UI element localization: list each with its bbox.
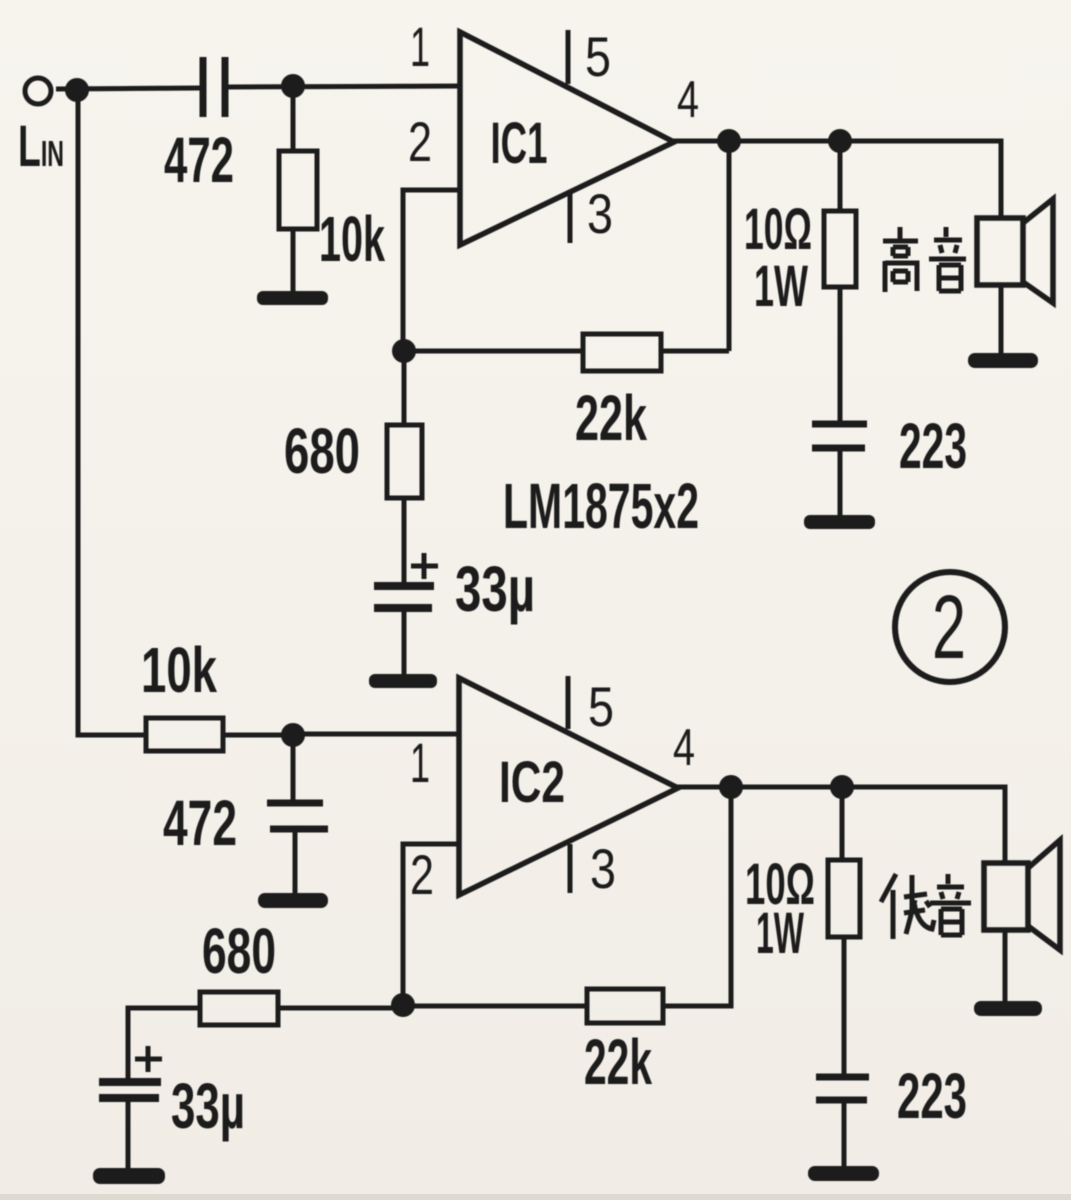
wire cap to IC1 pin 1 — [228, 86, 461, 87]
wire tweeter to ground — [999, 285, 1004, 356]
wire node G down to feedback — [663, 787, 731, 1006]
label 33u lower — [171, 1070, 245, 1142]
wire R680 to C33u — [402, 498, 407, 583]
capacitor C 472 lower — [267, 803, 328, 829]
pin 4 label IC2 — [673, 719, 695, 777]
wire R10ohm to C223 lower — [842, 937, 847, 1077]
svg-text:22k: 22k — [584, 1026, 652, 1098]
node C: output node — [717, 129, 741, 153]
node A: input junction — [65, 78, 89, 102]
resistor R 22k top feedback — [583, 334, 661, 371]
capacitor C 223 lower zobel — [816, 1077, 869, 1100]
svg-text:680: 680 — [202, 915, 276, 987]
label 223 lower — [897, 1060, 967, 1132]
wire IC2 output to woofer — [676, 787, 1005, 864]
pin 5 stub — [566, 30, 571, 84]
svg-text:IC1: IC1 — [491, 111, 548, 176]
pin 3 label IC2 — [590, 837, 616, 900]
wire node H to R10ohm lower — [840, 787, 845, 860]
resistor R 22k lower feedback — [587, 989, 663, 1023]
wire node F down to C472 — [291, 735, 296, 802]
label 223 — [899, 410, 967, 482]
svg-text:10Ω: 10Ω — [744, 197, 812, 262]
svg-text:IC2: IC2 — [499, 750, 565, 815]
pin 5 label — [585, 25, 611, 88]
node B: top input node — [281, 74, 305, 98]
label 10k lower — [141, 634, 217, 706]
wire Lin down to lower channel — [78, 98, 146, 735]
wire R680 to C33u lower — [128, 1008, 200, 1082]
pin 2 label IC2 — [410, 843, 434, 906]
wire IC1 pin 2 — [403, 190, 460, 351]
wire R10ohm to C223 — [838, 287, 843, 424]
capacitor C 472 top coupling — [203, 57, 225, 117]
svg-text:472: 472 — [164, 124, 234, 196]
svg-text:1W: 1W — [756, 901, 804, 966]
label gaoyin tweeter — [883, 227, 966, 292]
ground top input — [257, 291, 328, 305]
speaker woofer — [984, 840, 1060, 950]
pin 3 label — [587, 182, 613, 245]
wire input to coupling cap — [56, 88, 200, 89]
svg-text:3: 3 — [587, 182, 613, 245]
label 10ohm — [744, 197, 812, 262]
svg-text:3: 3 — [590, 837, 616, 900]
svg-text:223: 223 — [897, 1060, 967, 1132]
label 472 — [164, 124, 234, 196]
wire feedback right segment — [661, 349, 729, 354]
label 10k — [319, 203, 385, 275]
resistor R 680 lower — [200, 992, 278, 1025]
node I: lower feedback node — [391, 993, 415, 1017]
pin 3 stub IC2 — [568, 844, 573, 893]
wire C223 to ground lower — [842, 1100, 847, 1168]
svg-text:680: 680 — [284, 415, 360, 487]
label 22k — [575, 382, 647, 454]
label LM1875x2 — [503, 470, 699, 542]
label 472 lower — [163, 787, 237, 859]
wire IC1 output to tweeter — [672, 141, 1001, 219]
ground lower 33u — [93, 1168, 165, 1184]
svg-text:223: 223 — [899, 410, 967, 482]
svg-text:22k: 22k — [575, 382, 647, 454]
wire C33u to ground lower — [126, 1098, 131, 1172]
wire woofer to ground — [1003, 930, 1008, 1003]
ground top 33u — [369, 674, 437, 688]
resistor R 10k top bias — [279, 151, 317, 229]
ground top zobel — [804, 515, 875, 529]
wire C33u to ground — [402, 608, 407, 678]
svg-text:472: 472 — [163, 787, 237, 859]
pin 1 label IC2 — [410, 731, 430, 794]
pin 5 label IC2 — [588, 675, 614, 738]
figure number 2 circled — [895, 572, 1005, 682]
pin 1 label — [410, 15, 430, 78]
wire 22k to node E — [404, 349, 583, 354]
wire node C down to feedback — [727, 141, 732, 351]
ground woofer — [974, 1001, 1042, 1016]
wire node E down to R680 — [402, 351, 407, 425]
node E: feedback node — [392, 339, 416, 363]
svg-text:33µ: 33µ — [455, 553, 535, 625]
resistor R 10ohm 1W top zobel — [824, 211, 856, 287]
label Lin — [18, 114, 64, 179]
op-amp IC2 — [459, 678, 678, 895]
label 22k lower — [584, 1026, 652, 1098]
speaker tweeter — [977, 199, 1053, 303]
svg-text:10k: 10k — [141, 634, 217, 706]
capacitor C 33u lower electrolytic — [99, 1046, 162, 1098]
resistor R 680 top — [387, 425, 422, 498]
capacitor C 223 top zobel — [812, 424, 867, 448]
ground lower zobel — [808, 1166, 879, 1181]
input terminal Lin — [25, 78, 51, 104]
svg-text:4: 4 — [673, 719, 695, 777]
node F: lower input node — [281, 723, 305, 747]
label 1W lower — [756, 901, 804, 966]
resistor R 10ohm 1W lower zobel — [828, 860, 860, 937]
svg-text:5: 5 — [588, 675, 614, 738]
wire IC2 pin 2 — [403, 844, 459, 1004]
svg-text:2: 2 — [408, 110, 432, 173]
op-amp IC1 — [460, 32, 674, 245]
wire R10k to node F — [223, 733, 293, 738]
svg-text:10k: 10k — [319, 203, 385, 275]
label 33u — [455, 553, 535, 625]
svg-text:2: 2 — [410, 843, 434, 906]
svg-text:LM1875x2: LM1875x2 — [503, 470, 699, 542]
wire C472 to ground — [293, 829, 298, 897]
pin 5 stub IC2 — [566, 676, 571, 729]
svg-text:5: 5 — [585, 25, 611, 88]
pin 2 label — [408, 110, 432, 173]
wire node D to R10ohm — [838, 141, 843, 211]
wire 22k to node I — [403, 1004, 587, 1009]
svg-text:4: 4 — [677, 71, 699, 129]
svg-text:1: 1 — [410, 731, 430, 794]
svg-text:1W: 1W — [754, 254, 808, 319]
label IC2 — [499, 750, 565, 815]
node D: zobel node — [828, 129, 852, 153]
resistor R 10k lower series — [146, 718, 223, 751]
pin 4 label — [677, 71, 699, 129]
label 680 lower — [202, 915, 276, 987]
label 680 — [284, 415, 360, 487]
label IC1 — [491, 111, 548, 176]
node G: lower output node — [719, 775, 743, 799]
pin 3 stub — [568, 190, 573, 243]
wire C223 to ground — [838, 448, 843, 518]
wire R10k to ground — [291, 229, 296, 296]
ground tweeter — [968, 353, 1038, 368]
capacitor C 33u top electrolytic — [374, 553, 438, 608]
node H: lower zobel node — [830, 775, 854, 799]
svg-text:2: 2 — [932, 578, 966, 678]
label 1W — [754, 254, 808, 319]
svg-text:1: 1 — [410, 15, 430, 78]
wire node B down to R10k — [291, 86, 296, 151]
wire node I to R680 lower — [278, 1006, 403, 1011]
label diyin woofer — [881, 874, 971, 939]
ground lower 472 — [258, 893, 328, 908]
svg-text:33µ: 33µ — [171, 1070, 245, 1142]
label 10ohm lower — [745, 852, 815, 917]
wire node F to IC2 pin 1 — [293, 732, 460, 737]
